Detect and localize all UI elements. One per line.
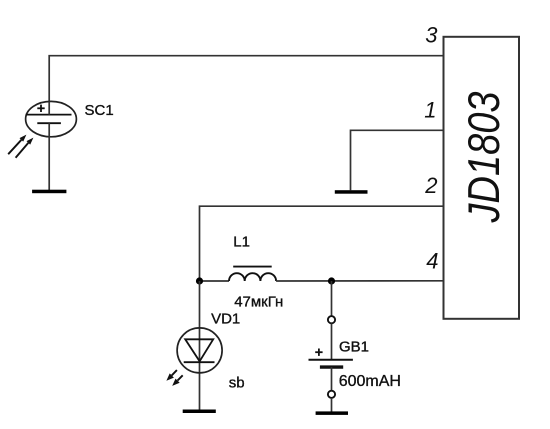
svg-text:47мкГн: 47мкГн [234, 294, 283, 311]
svg-text:1: 1 [424, 98, 436, 123]
svg-text:4: 4 [426, 249, 438, 274]
svg-text:3: 3 [425, 23, 438, 48]
ground below SC1 [32, 190, 66, 194]
LED cathode bar [184, 361, 215, 363]
svg-text:sb: sb [229, 375, 245, 392]
IC U1 box [444, 37, 520, 319]
wire battery to terminal [331, 367, 333, 391]
solar cell SC1 ellipse [26, 101, 77, 136]
battery GB1 long plate [309, 359, 353, 361]
inductor L1 [229, 273, 276, 281]
wire node to LED [199, 281, 201, 410]
battery GB1 short plate [320, 365, 343, 368]
SC1 light arrow 1 [8, 135, 26, 155]
wire terminal to battery [331, 324, 333, 360]
wire node to battery terminal [331, 281, 333, 316]
SC1 plus sign [37, 105, 44, 112]
wire net pin4 left segment [200, 280, 230, 282]
LED triangle [185, 339, 213, 361]
svg-text:L1: L1 [233, 234, 250, 251]
battery terminal circle top [328, 316, 335, 323]
battery GB1 plus sign [315, 349, 322, 356]
wire net pin4 right segment [276, 280, 443, 282]
wire terminal to ground [331, 398, 333, 413]
svg-text:JD1803: JD1803 [459, 91, 508, 223]
svg-text:2: 2 [424, 173, 437, 198]
svg-text:GB1: GB1 [339, 338, 369, 355]
wire SC1 interior vertical [48, 102, 50, 115]
ground below battery [316, 411, 348, 415]
SC1 light arrow 2 [16, 138, 34, 158]
wire SC1 bottom to ground [48, 123, 50, 190]
wire net pin2 [200, 206, 444, 281]
svg-text:SC1: SC1 [85, 102, 114, 119]
LED VD1 circle [177, 328, 222, 373]
SC1 short plate [37, 122, 61, 124]
wire net pin1 [351, 130, 444, 190]
junction node right [328, 277, 335, 284]
wire net pin3: SC1 top to IC pin 3 [49, 56, 443, 102]
junction node left [196, 277, 203, 284]
ground below LED [183, 410, 216, 414]
svg-text:600mAH: 600mAH [339, 373, 401, 390]
L1 core line [233, 266, 272, 268]
ground below pin1 wire [335, 190, 368, 194]
LED light arrow 2 [172, 375, 183, 386]
SC1 long plate [26, 114, 72, 116]
svg-text:VD1: VD1 [211, 311, 240, 328]
battery terminal circle bottom [328, 391, 335, 398]
LED light arrow 1 [166, 370, 177, 381]
